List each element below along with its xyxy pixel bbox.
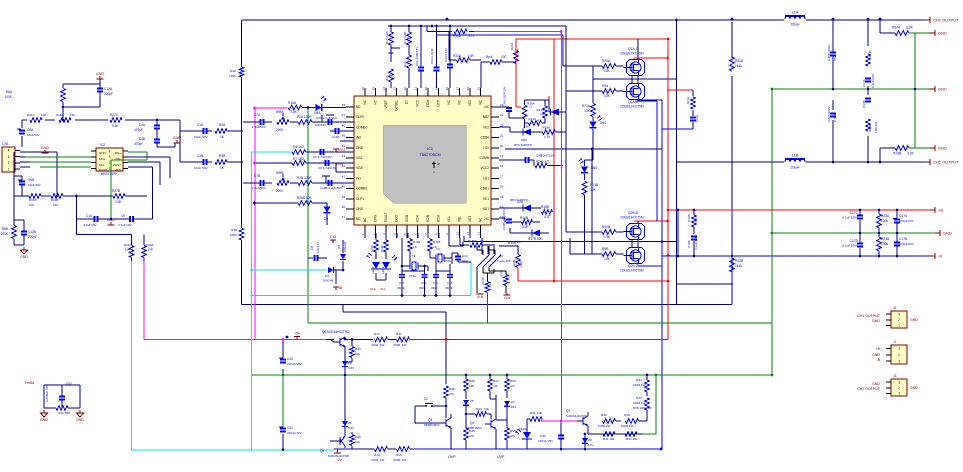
pin GND D xyxy=(935,230,952,236)
capacitor C17C 0.1uF xyxy=(842,209,863,235)
svg-text:46: 46 xyxy=(342,123,346,127)
text RPU7 B xyxy=(510,198,529,202)
svg-text:IC2A: IC2A xyxy=(437,214,441,222)
svg-text:35: 35 xyxy=(372,87,376,91)
transistor Q1B,D lower xyxy=(620,84,645,109)
svg-text:LED3: LED3 xyxy=(381,266,385,274)
svg-text:C13: C13 xyxy=(433,281,439,285)
svg-text:NC: NC xyxy=(363,99,367,104)
diode D4 DIN148 xyxy=(323,267,344,283)
svg-text:R104: R104 xyxy=(147,243,154,247)
svg-text:2SK&SJ/XCT5M: 2SK&SJ/XCT5M xyxy=(620,216,644,220)
pwr -2v xyxy=(334,449,342,462)
resistor R6A 100K xyxy=(5,84,100,103)
resistor R11A snubber xyxy=(662,90,699,129)
svg-text:8: 8 xyxy=(435,233,439,235)
svg-text:33uH: 33uH xyxy=(790,166,799,170)
svg-text:40: 40 xyxy=(342,185,346,189)
svg-text:VLA: VLA xyxy=(380,287,386,291)
svg-text:10R: 10R xyxy=(148,248,153,252)
wire bottom bus navy ovp xyxy=(415,448,662,450)
svg-text:VG2: VG2 xyxy=(339,148,346,152)
svg-text:1MA: 1MA xyxy=(735,64,743,68)
svg-text:XTAL: XTAL xyxy=(409,274,417,278)
resistor R44 470R xyxy=(352,447,388,462)
svg-text:R71B: R71B xyxy=(590,183,599,187)
svg-text:0.1uF,63V: 0.1uF,63V xyxy=(871,73,875,88)
capacitor C7A 2.2uF xyxy=(243,113,272,129)
svg-text:R23B: R23B xyxy=(868,124,872,132)
svg-text:1: 1 xyxy=(361,233,365,235)
svg-text:3.3K: 3.3K xyxy=(523,125,530,129)
ground ferrite left xyxy=(40,410,48,422)
pin CH2 OUTPUT xyxy=(925,159,959,165)
capacitor C12B 220pF xyxy=(14,220,37,245)
svg-text:R16: R16 xyxy=(469,379,475,383)
svg-text:R16A: R16A xyxy=(453,34,462,38)
svg-text:28: 28 xyxy=(445,87,449,91)
diode Z1 5.6V zener xyxy=(342,375,354,432)
svg-text:5: 5 xyxy=(403,233,407,235)
wire ovp vertical xyxy=(445,312,448,384)
svg-text:DIN148: DIN148 xyxy=(323,279,334,283)
resistor R104 10R xyxy=(142,243,154,261)
wire cyan y152 xyxy=(251,151,293,153)
resistor R24A 3.3K xyxy=(879,18,930,36)
svg-text:R14A: R14A xyxy=(529,117,538,121)
svg-text:0.1uF,100V: 0.1uF,100V xyxy=(694,233,698,250)
svg-text:3: 3 xyxy=(898,347,900,351)
resistor R71B 10K xyxy=(582,181,599,254)
pwr VG2 mark xyxy=(330,148,346,152)
svg-text:C14: C14 xyxy=(447,281,453,285)
svg-text:100K: 100K xyxy=(1,232,9,236)
capacitor C6A 10uF xyxy=(17,128,40,137)
wire cn1 leads xyxy=(20,152,58,197)
svg-text:23: 23 xyxy=(500,113,504,117)
capacitor C41 220uF xyxy=(279,426,302,451)
svg-text:Z5: Z5 xyxy=(470,399,474,403)
svg-text:17V: 17V xyxy=(588,443,593,447)
svg-text:J3: J3 xyxy=(893,374,897,378)
svg-text:19: 19 xyxy=(500,154,504,158)
wire bottom bus blue xyxy=(334,100,662,449)
svg-text:C1B: C1B xyxy=(197,154,203,158)
svg-text:470R, 1W: 470R, 1W xyxy=(393,343,407,347)
svg-text:R27A: R27A xyxy=(110,113,119,117)
svg-text:1uF,16V: 1uF,16V xyxy=(316,242,320,253)
svg-text:D2B: D2B xyxy=(517,200,523,204)
wire red stub q1 xyxy=(634,57,669,60)
resistor R102 vert xyxy=(380,238,388,259)
svg-text:10uF,50V: 10uF,50V xyxy=(27,133,40,137)
svg-text:R58: R58 xyxy=(510,429,516,433)
svg-text:R9a: R9a xyxy=(602,84,608,88)
resistor R6B 100K xyxy=(1,196,24,245)
wire red v668 xyxy=(667,39,669,340)
wire cyan v251 xyxy=(251,152,253,450)
wire green cn1-ic1 xyxy=(25,157,91,162)
pwr VGA mark xyxy=(336,162,344,166)
svg-text:10uF, 50V: 10uF, 50V xyxy=(194,135,208,139)
svg-text:1K: 1K xyxy=(488,281,492,285)
svg-text:CDB0: CDB0 xyxy=(480,136,489,140)
resistor R20B 10K xyxy=(566,26,624,254)
capacitor C4B 470pF xyxy=(134,137,175,147)
svg-text:VE2: VE2 xyxy=(468,100,472,106)
svg-text:10K: 10K xyxy=(604,94,611,98)
resistor R50 47k xyxy=(505,374,516,398)
svg-text:R71A: R71A xyxy=(582,104,591,108)
svg-text:4: 4 xyxy=(393,233,397,235)
svg-text:R36: R36 xyxy=(449,387,455,391)
svg-text:Y1: Y1 xyxy=(436,247,440,251)
svg-text:R7 1K2: R7 1K2 xyxy=(293,157,304,161)
wire top-left rail xyxy=(22,120,180,147)
resistor R4 1K2 xyxy=(292,145,354,159)
resistor R20a 10K xyxy=(563,59,624,79)
svg-text:470uF,63V: 470uF,63V xyxy=(899,242,915,246)
wire red +B bus xyxy=(668,209,930,211)
wire red v554 xyxy=(553,39,555,281)
svg-text:IC0B: IC0B xyxy=(405,215,409,222)
svg-text:CH2 OUTPUT: CH2 OUTPUT xyxy=(933,160,959,165)
svg-text:GND: GND xyxy=(20,255,28,259)
svg-text:RpA: RpA xyxy=(486,55,493,59)
ground ferrite right xyxy=(76,410,84,422)
svg-text:LED1: LED1 xyxy=(519,427,527,431)
transistor Q9 MJD45H11TRD xyxy=(320,432,350,458)
wire pins-to-bus xyxy=(365,233,481,238)
svg-text:47k: 47k xyxy=(510,384,515,388)
svg-text:3.3K: 3.3K xyxy=(112,124,119,128)
wire magenta y421 xyxy=(541,420,578,422)
capacitor C1B 10uF xyxy=(180,131,212,170)
resistor R31B 10K xyxy=(14,176,47,207)
svg-text:C8: C8 xyxy=(310,246,314,250)
resistor R101 1K xyxy=(408,238,421,257)
svg-text:R38 100R,1W: R38 100R,1W xyxy=(633,406,652,410)
svg-text:11: 11 xyxy=(466,232,470,235)
svg-text:C16A: C16A xyxy=(332,135,340,139)
svg-text:IC2: IC2 xyxy=(100,143,105,147)
wire q7 emitter rail xyxy=(588,433,642,435)
resistor R34 100R vert xyxy=(633,374,649,396)
capacitor C6A 0.01F xyxy=(444,25,453,88)
resistor RpA 10C xyxy=(481,55,516,88)
wire bus y241 xyxy=(449,236,677,257)
svg-text:3.3K: 3.3K xyxy=(115,200,122,204)
svg-text:R41 10k: R41 10k xyxy=(603,437,615,441)
resistor R9B 10K xyxy=(570,238,624,261)
svg-text:200K: 200K xyxy=(276,128,284,132)
svg-text:3.3K: 3.3K xyxy=(522,225,529,229)
svg-text:GND: GND xyxy=(41,146,49,150)
diode D8A xyxy=(302,96,346,120)
wire magenta v254 xyxy=(254,108,256,340)
wire mosfet pair2 links xyxy=(632,221,638,265)
svg-text:100k: 100k xyxy=(881,242,889,246)
diode D65 xyxy=(578,158,597,180)
wire cyan y295 xyxy=(252,262,471,296)
capacitor C17B 470uF xyxy=(894,233,915,257)
svg-text:VLA: VLA xyxy=(370,287,376,291)
pwr B mark xyxy=(333,270,342,290)
wire red v516 xyxy=(516,39,521,107)
svg-text:C8A 0.033F: C8A 0.033F xyxy=(430,48,434,64)
svg-text:VCC: VCC xyxy=(416,99,420,106)
resistor R37 100R vert xyxy=(633,396,652,414)
pin GND A xyxy=(930,30,947,36)
resistor R24B 3.3K xyxy=(879,146,930,164)
svg-text:R15B ***: R15B *** xyxy=(508,241,521,245)
svg-text:COMB0: COMB0 xyxy=(356,125,368,129)
svg-text:NC: NC xyxy=(484,217,489,221)
svg-text:27: 27 xyxy=(456,87,460,91)
resistor R2B 130R xyxy=(290,176,354,190)
svg-text:LG0: LG0 xyxy=(483,146,489,150)
wire v676 long xyxy=(593,19,733,305)
resistor R32A 10R xyxy=(449,32,481,63)
svg-text:330p: 330p xyxy=(431,286,438,290)
wire bus y312 xyxy=(343,304,446,312)
diode D3 DIN148 xyxy=(337,240,347,270)
svg-text:-2v: -2v xyxy=(337,458,342,462)
svg-text:IC1: IC1 xyxy=(427,147,433,151)
connector CN3 power xyxy=(872,340,907,364)
svg-text:15K: 15K xyxy=(53,203,58,207)
svg-text:C12B: C12B xyxy=(28,230,36,234)
svg-text:2: 2 xyxy=(898,353,900,357)
svg-text:D4: D4 xyxy=(325,274,329,278)
svg-text:20: 20 xyxy=(500,144,504,148)
resistor R7 1K2 xyxy=(253,157,354,170)
text D2B sub xyxy=(508,241,521,245)
svg-text:+B: +B xyxy=(938,208,943,213)
svg-text:ND1: ND1 xyxy=(483,207,490,211)
svg-text:220pF: 220pF xyxy=(28,235,37,239)
svg-text:R16A: R16A xyxy=(288,101,297,105)
resistor R12A 1MA xyxy=(730,57,744,71)
wire magenta v144 xyxy=(143,261,145,340)
svg-text:16: 16 xyxy=(500,185,504,189)
wire green ic1 loop xyxy=(40,152,147,219)
svg-text:CLP0: CLP0 xyxy=(356,115,364,119)
svg-text:C9A 1000/16V: C9A 1000/16V xyxy=(415,47,419,66)
ground green loop xyxy=(0,0,1,1)
junction dots caps cyan xyxy=(401,294,452,297)
svg-text:24V: 24V xyxy=(511,405,516,409)
svg-text:VGA: VGA xyxy=(356,166,364,170)
svg-text:R6A: R6A xyxy=(6,90,13,94)
svg-text:3.3K: 3.3K xyxy=(906,26,914,30)
wire q4 collector xyxy=(490,395,496,414)
svg-text:R42 75R: R42 75R xyxy=(58,411,71,415)
svg-text:R18A: R18A xyxy=(543,126,552,130)
svg-text:C6A: C6A xyxy=(27,128,34,132)
svg-text:100K: 100K xyxy=(229,74,236,78)
resistor R43 470R xyxy=(371,332,388,347)
svg-text:R20A: R20A xyxy=(510,42,514,50)
svg-text:VREF: VREF xyxy=(384,100,388,109)
wire red stub q2 xyxy=(634,220,669,223)
svg-text:FAULT: FAULT xyxy=(384,212,388,222)
svg-text:R12A: R12A xyxy=(735,59,744,63)
svg-text:R37: R37 xyxy=(636,396,642,400)
connector CN4 output xyxy=(857,374,918,396)
svg-text:R10B: R10B xyxy=(687,214,691,222)
svg-text:10R: 10R xyxy=(125,248,130,252)
svg-text:10k: 10k xyxy=(355,352,360,356)
svg-text:R105: R105 xyxy=(481,277,485,284)
svg-text:R13: R13 xyxy=(403,61,407,67)
resistor R23A2 10R xyxy=(862,49,875,88)
pin +B xyxy=(930,207,943,213)
svg-text:4: 4 xyxy=(109,149,111,153)
resistor R103 1K xyxy=(428,238,441,256)
capacitor C10 4.7uF xyxy=(77,214,111,227)
svg-text:C12: C12 xyxy=(421,281,427,285)
svg-text:1IN-: 1IN- xyxy=(99,163,105,167)
wire mosfet pair1 links xyxy=(632,39,657,221)
resistor R26B 10K xyxy=(253,196,322,205)
svg-text:10C: 10C xyxy=(501,55,508,59)
capacitor C9A 1000pF xyxy=(415,25,424,88)
svg-text:C10B: C10B xyxy=(687,240,691,248)
svg-text:C17D: C17D xyxy=(850,239,859,243)
diode D2B xyxy=(499,200,541,212)
svg-text:OTP: OTP xyxy=(437,100,441,107)
svg-text:1MA: 1MA xyxy=(735,264,743,268)
capacitor C11 330pF xyxy=(397,271,405,296)
resistor R14A 3.3K xyxy=(523,117,545,129)
svg-text:1uF,50V: 1uF,50V xyxy=(315,123,326,127)
resistor R23A 100k xyxy=(877,209,890,235)
resistor R107 10R xyxy=(124,243,134,261)
svg-text:R17B 10K: R17B 10K xyxy=(528,237,543,241)
svg-text:GND: GND xyxy=(938,146,947,151)
capacitor C8A 0.033F xyxy=(430,25,439,88)
pot WRB 200K xyxy=(276,171,289,193)
svg-text:R31B: R31B xyxy=(29,198,37,202)
svg-text:R20a: R20a xyxy=(602,59,610,63)
transistor Q2B,D upper xyxy=(620,211,645,240)
svg-text:Q3: Q3 xyxy=(428,418,432,422)
svg-text:R30B: R30B xyxy=(51,198,59,202)
capacitor C9B 10uF xyxy=(499,148,593,232)
svg-text:1K: 1K xyxy=(507,274,511,278)
svg-text:S1: S1 xyxy=(499,254,503,258)
capacitor C12A 220pF xyxy=(62,84,113,108)
svg-text:10uF/16V: 10uF/16V xyxy=(541,154,554,158)
svg-text:OCSEL: OCSEL xyxy=(395,100,399,111)
capacitor C10B2 6.8nF 400V xyxy=(827,105,837,122)
svg-text:R101: R101 xyxy=(413,240,421,244)
svg-text:+5v: +5v xyxy=(294,331,300,335)
capacitor C1A 10uF xyxy=(180,123,212,139)
svg-text:1K: 1K xyxy=(413,245,418,249)
svg-text:10R: 10R xyxy=(468,54,475,58)
svg-text:0.1uF,100V: 0.1uF,100V xyxy=(842,216,859,220)
diode LED2 xyxy=(366,253,381,291)
svg-text:10k: 10k xyxy=(484,407,489,411)
svg-text:J2: J2 xyxy=(893,306,897,310)
resistor R35 47k xyxy=(464,413,475,449)
wire ic1 right wires xyxy=(75,157,170,245)
svg-text:UVP: UVP xyxy=(497,455,505,459)
capacitor C16A xyxy=(330,128,354,139)
svg-text:XCL: XCL xyxy=(447,216,451,222)
capacitor C13 330p xyxy=(431,271,439,296)
pot WRA 200K xyxy=(276,110,289,132)
resistor R40 10k xyxy=(345,338,361,362)
svg-text:2SK&SJ/XCT5M: 2SK&SJ/XCT5M xyxy=(620,269,644,273)
svg-text:R26B 10K: R26B 10K xyxy=(297,196,312,200)
transistor Q7 MJD44H11TRD xyxy=(566,409,588,434)
svg-text:2OUT: 2OUT xyxy=(113,163,121,167)
svg-text:R12 2.2K: R12 2.2K xyxy=(403,31,407,44)
svg-text:C1A: C1A xyxy=(197,123,204,127)
svg-text:-B: -B xyxy=(938,254,942,259)
wire blue -B bus xyxy=(505,149,930,256)
wire cyan bottom xyxy=(132,261,334,450)
svg-text:GND: GND xyxy=(99,151,107,155)
svg-text:1: 1 xyxy=(898,359,900,363)
resistor R58 47k xyxy=(496,420,516,449)
svg-text:GND: GND xyxy=(910,386,918,390)
transistor Q2B,D lower xyxy=(620,248,645,273)
svg-text:R6B: R6B xyxy=(2,227,8,231)
wire red top xyxy=(516,38,668,40)
svg-text:R10 2.2K: R10 2.2K xyxy=(385,31,389,44)
op-amp IC2 MB3771PF supervisor xyxy=(91,143,128,176)
svg-text:COMB1: COMB1 xyxy=(356,187,368,191)
svg-text:31: 31 xyxy=(414,87,418,91)
svg-text:VLB: VLB xyxy=(477,295,484,299)
svg-text:C42: C42 xyxy=(540,434,546,438)
wire green y323 xyxy=(308,293,772,323)
wire magenta stub r16a xyxy=(255,107,287,109)
svg-text:L1A: L1A xyxy=(792,11,799,15)
resistor R12 2.2K xyxy=(403,25,411,55)
diode Z3 17V xyxy=(582,433,593,451)
svg-text:5.6V: 5.6V xyxy=(348,366,354,370)
resistor R30A 15K xyxy=(56,103,75,122)
resistor R33 10k xyxy=(476,407,492,419)
svg-text:VCC2: VCC2 xyxy=(480,166,489,170)
svg-text:R4B: R4B xyxy=(231,228,237,232)
wire red ovp bus xyxy=(415,339,668,341)
svg-text:100R,1W: 100R,1W xyxy=(633,401,646,405)
svg-text:C12A: C12A xyxy=(104,87,113,91)
resistor R47 470R xyxy=(388,332,415,347)
svg-text:R3B: R3B xyxy=(219,154,225,158)
svg-text:R24A: R24A xyxy=(892,26,901,30)
crystal Y1 xyxy=(430,247,452,264)
connector CN1 xyxy=(2,142,20,172)
resistor R16M xyxy=(460,238,495,247)
ground c4b xyxy=(173,136,181,143)
svg-text:3: 3 xyxy=(382,233,386,235)
svg-text:C11: C11 xyxy=(399,281,404,285)
svg-text:VDD: VDD xyxy=(115,168,122,172)
svg-text:VGA: VGA xyxy=(336,162,344,166)
svg-text:12: 12 xyxy=(477,231,481,235)
svg-text:10K: 10K xyxy=(584,109,591,113)
svg-text:4.7L: 4.7L xyxy=(544,215,550,219)
capacitor C12 330p xyxy=(419,271,428,296)
text UVP xyxy=(497,455,505,459)
